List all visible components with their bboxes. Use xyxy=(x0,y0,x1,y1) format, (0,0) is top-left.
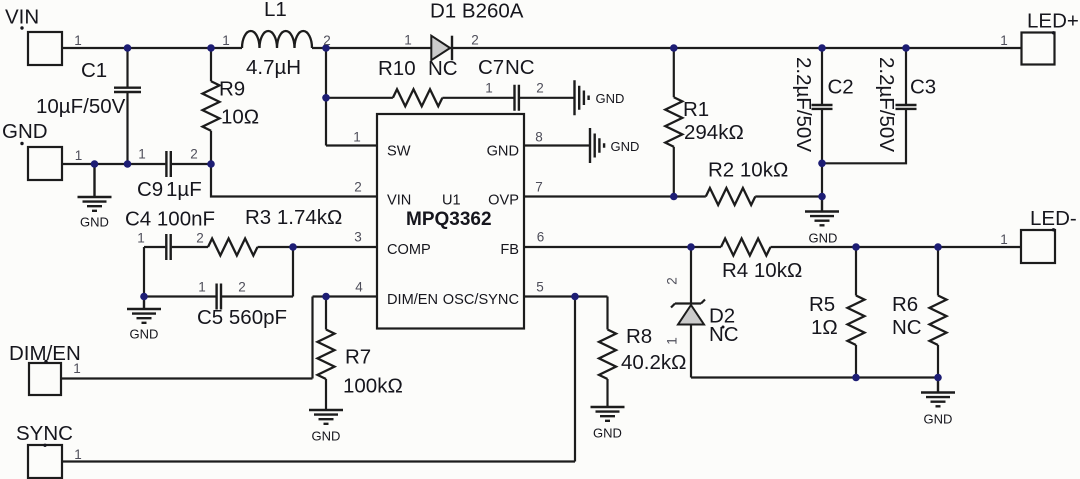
wire R9 top lead xyxy=(210,48,212,81)
wire GND pin8 xyxy=(524,144,589,146)
svg-text:2: 2 xyxy=(471,33,479,48)
svg-text:R4 10kΩ: R4 10kΩ xyxy=(722,259,802,282)
node GND terminal junction xyxy=(91,160,99,168)
wire C4 branch down xyxy=(143,247,145,297)
svg-text:40.2kΩ: 40.2kΩ xyxy=(621,351,686,374)
wire C3 column upper xyxy=(905,48,907,104)
terminal LED+ xyxy=(1000,10,1079,65)
resistor R4 xyxy=(721,239,771,256)
svg-text:GND: GND xyxy=(487,144,519,160)
svg-text:C4 100nF: C4 100nF xyxy=(125,208,215,231)
svg-text:U1: U1 xyxy=(442,192,461,208)
capacitor C1 xyxy=(114,88,141,92)
capacitor C7 xyxy=(515,85,519,111)
wire R9 bottom lead xyxy=(210,131,212,164)
ground symbol below R7 xyxy=(309,410,343,424)
svg-text:1: 1 xyxy=(74,33,82,48)
node R5 top junction xyxy=(852,243,860,251)
svg-text:SW: SW xyxy=(387,144,411,160)
node FB-D2 junction xyxy=(687,243,695,251)
wire SW column xyxy=(326,48,377,146)
svg-text:7: 7 xyxy=(535,180,543,195)
svg-text:OSC/SYNC: OSC/SYNC xyxy=(443,292,519,308)
capacitor C4 xyxy=(166,234,170,260)
svg-text:2.2µF/50V: 2.2µF/50V xyxy=(875,57,898,152)
svg-text:1: 1 xyxy=(138,147,146,162)
svg-text:GND: GND xyxy=(312,429,341,444)
svg-text:1: 1 xyxy=(353,130,361,145)
node R6 top junction xyxy=(934,243,942,251)
svg-text:LED+: LED+ xyxy=(1027,10,1079,33)
wire C5 left lead xyxy=(144,295,216,297)
svg-text:1: 1 xyxy=(73,361,81,376)
svg-text:MPQ3362: MPQ3362 xyxy=(406,209,492,230)
capacitor C9 xyxy=(166,151,170,177)
svg-text:2: 2 xyxy=(536,81,544,96)
svg-text:4: 4 xyxy=(355,280,363,295)
wire R1 bottom lead xyxy=(673,147,675,197)
svg-text:R8: R8 xyxy=(626,325,652,348)
ground symbol right-facing at pin 8 xyxy=(590,128,604,163)
wire R4 to LED- xyxy=(771,246,1022,248)
svg-text:C1: C1 xyxy=(81,59,107,82)
svg-text:2: 2 xyxy=(190,147,198,162)
svg-text:2: 2 xyxy=(323,33,331,48)
wire R5 top lead xyxy=(855,247,857,296)
wire R10 to C7 xyxy=(442,97,513,99)
node VIN-C1 junction xyxy=(124,44,132,52)
svg-text:R9: R9 xyxy=(219,78,245,101)
svg-text:OVP: OVP xyxy=(488,192,519,208)
svg-text:1: 1 xyxy=(1000,232,1008,247)
node R3-C5 junction xyxy=(289,243,297,251)
svg-text:1: 1 xyxy=(137,231,145,246)
capacitor C2 xyxy=(812,105,833,109)
wire C1 column lower xyxy=(126,93,128,165)
node R7 top junction xyxy=(322,293,330,301)
svg-text:C2: C2 xyxy=(828,76,854,99)
svg-text:2.2µF/50V: 2.2µF/50V xyxy=(792,57,815,152)
svg-text:10µF/50V: 10µF/50V xyxy=(36,95,126,118)
svg-text:1: 1 xyxy=(485,81,493,96)
svg-text:C3: C3 xyxy=(910,76,936,99)
svg-text:2: 2 xyxy=(196,231,204,246)
wire SYNC riser xyxy=(62,297,575,462)
svg-text:2: 2 xyxy=(354,180,362,195)
svg-text:LED-: LED- xyxy=(1030,207,1077,230)
wire FB pin6 row xyxy=(524,246,721,248)
svg-text:2: 2 xyxy=(238,280,246,295)
terminal SYNC xyxy=(16,422,82,478)
svg-text:GND: GND xyxy=(2,120,48,143)
wire R2 left lead xyxy=(674,195,706,197)
svg-text:R6: R6 xyxy=(892,293,918,316)
svg-text:8: 8 xyxy=(535,130,543,145)
svg-text:5: 5 xyxy=(536,280,544,295)
capacitor C3 xyxy=(896,105,917,109)
label D2 NC dot xyxy=(722,326,725,329)
svg-text:C7: C7 xyxy=(478,56,504,79)
node L1 pin1 junction xyxy=(207,44,215,52)
wire C4 to R3 xyxy=(172,246,208,248)
node R2-GND junction xyxy=(818,193,826,201)
wire DIM/EN terminal run xyxy=(61,297,313,379)
svg-text:R3 1.74kΩ: R3 1.74kΩ xyxy=(245,206,342,229)
ground symbol below C4 C5 xyxy=(127,297,161,323)
node SYNC junction xyxy=(571,293,579,301)
svg-text:3: 3 xyxy=(354,230,362,245)
svg-text:GND: GND xyxy=(130,327,159,342)
node C5-GND junction xyxy=(140,293,148,301)
wire C5 right to COMP junction xyxy=(222,247,293,297)
resistor R5 xyxy=(848,296,865,346)
node C2 bottom junction xyxy=(818,160,826,168)
svg-text:1: 1 xyxy=(665,337,680,345)
svg-text:6: 6 xyxy=(537,230,545,245)
wire C2 column lower xyxy=(821,110,823,197)
svg-text:GND: GND xyxy=(596,91,625,106)
svg-text:1: 1 xyxy=(222,33,230,48)
svg-text:C5 560pF: C5 560pF xyxy=(197,306,287,329)
zener diode D2 xyxy=(671,300,705,308)
node C2 top junction xyxy=(818,44,826,52)
svg-text:SYNC: SYNC xyxy=(16,422,73,445)
svg-text:2: 2 xyxy=(665,277,680,285)
wire R2 right lead xyxy=(755,195,822,197)
svg-text:GND: GND xyxy=(809,231,838,246)
node C3 top junction xyxy=(902,44,910,52)
wire R8 top lead xyxy=(606,297,608,330)
node R10 branch junction xyxy=(322,94,330,102)
svg-text:1: 1 xyxy=(198,280,206,295)
wire pin5 row xyxy=(524,295,608,297)
wire C7 to ground xyxy=(520,97,574,99)
wire VIN to L1 (top rail left) xyxy=(62,47,242,49)
terminal LED- xyxy=(1000,207,1076,263)
svg-text:R7: R7 xyxy=(345,346,371,369)
svg-text:D1 B260A: D1 B260A xyxy=(430,0,524,23)
ground symbol below R8 xyxy=(591,407,625,421)
svg-text:COMP: COMP xyxy=(387,242,431,258)
wire C9 to R9 junction xyxy=(172,163,211,165)
terminal GND (input) xyxy=(2,120,82,180)
wire D2 top lead xyxy=(690,247,692,304)
ground symbol at GND terminal xyxy=(78,164,112,211)
diode D1 cathode bar xyxy=(451,36,453,61)
wire R1 top lead xyxy=(673,48,675,97)
svg-text:GND: GND xyxy=(80,215,109,230)
svg-text:R5: R5 xyxy=(809,293,835,316)
resistor R7 xyxy=(318,330,335,380)
svg-text:FB: FB xyxy=(500,242,519,258)
wire L1 to LED+ (top rail right) xyxy=(312,47,1022,49)
wire R5 bottom lead xyxy=(855,345,857,378)
op-amp U1 (IC MPQ3362 body) xyxy=(353,114,544,329)
resistor R1 xyxy=(665,97,682,147)
wire R10 branch lead xyxy=(326,97,393,99)
resistor R3 xyxy=(208,239,258,256)
wire C4 row left corner xyxy=(144,246,165,248)
svg-text:100kΩ: 100kΩ xyxy=(343,375,403,398)
wire R6 bottom lead xyxy=(937,345,939,378)
svg-text:10Ω: 10Ω xyxy=(221,106,259,129)
svg-text:L1: L1 xyxy=(264,0,287,21)
svg-text:1: 1 xyxy=(74,447,82,462)
node R5 bottom junction xyxy=(852,374,860,382)
resistor R8 xyxy=(599,330,616,380)
wire junction to VIN pin2 xyxy=(211,164,377,197)
wire OVP pin7 to R1 bottom xyxy=(524,195,674,197)
wire GND terminal row xyxy=(62,163,165,165)
terminal VIN xyxy=(5,6,82,66)
inductor L1 xyxy=(242,31,312,48)
wire R6 top lead xyxy=(937,247,939,296)
svg-text:294kΩ: 294kΩ xyxy=(684,121,744,144)
svg-text:C9: C9 xyxy=(137,178,163,201)
node R1 top junction xyxy=(670,44,678,52)
svg-text:GND: GND xyxy=(593,426,622,441)
svg-text:1: 1 xyxy=(404,33,412,48)
resistor R2 xyxy=(706,188,756,205)
wire R8 bottom lead xyxy=(606,379,608,407)
svg-text:GND: GND xyxy=(611,139,640,154)
ground symbol below R6 rail xyxy=(921,378,955,407)
wire R3 to COMP pin3 xyxy=(258,246,378,248)
wire D2 bottom lead xyxy=(690,325,692,378)
wire bottom rail D2 to R6 xyxy=(691,376,938,378)
wire R7 top lead xyxy=(325,297,327,330)
svg-text:NC: NC xyxy=(505,56,535,79)
svg-text:R1: R1 xyxy=(683,98,709,121)
svg-text:1: 1 xyxy=(75,148,83,163)
wire R7 bottom lead xyxy=(325,379,327,410)
wire pin4 row xyxy=(313,295,378,297)
node C9-R9 junction xyxy=(207,160,215,168)
svg-text:VIN: VIN xyxy=(5,6,39,29)
node C1 bottom junction xyxy=(124,160,132,168)
terminal DIM/EN xyxy=(9,342,81,395)
wire C3 bottom to C2 xyxy=(822,110,906,163)
wire C1 column upper xyxy=(126,48,128,87)
diode D1 triangle xyxy=(431,36,450,61)
wire C2 column upper xyxy=(821,48,823,104)
svg-text:4.7µH: 4.7µH xyxy=(246,56,301,79)
svg-text:NC: NC xyxy=(892,316,922,339)
node SW junction xyxy=(322,44,330,52)
svg-text:1µF: 1µF xyxy=(166,178,202,201)
node R1-R2-OVP junction xyxy=(670,193,678,201)
ground symbol right-facing at C7 xyxy=(575,80,589,115)
svg-text:GND: GND xyxy=(924,412,953,427)
svg-text:NC: NC xyxy=(428,57,458,80)
svg-text:VIN: VIN xyxy=(387,192,411,208)
resistor R6 xyxy=(930,296,947,346)
svg-text:1Ω: 1Ω xyxy=(811,316,838,339)
node R6 bottom junction xyxy=(934,374,942,382)
resistor R10 xyxy=(393,89,443,106)
svg-text:DIM/EN: DIM/EN xyxy=(387,292,438,308)
diode D2 triangle xyxy=(678,305,704,325)
resistor R9 xyxy=(203,81,220,131)
svg-text:R10: R10 xyxy=(378,57,416,80)
capacitor C5 xyxy=(217,284,221,310)
svg-text:1: 1 xyxy=(1000,33,1008,48)
svg-text:R2 10kΩ: R2 10kΩ xyxy=(708,159,788,182)
ground symbol below R2 C2 xyxy=(805,197,839,226)
